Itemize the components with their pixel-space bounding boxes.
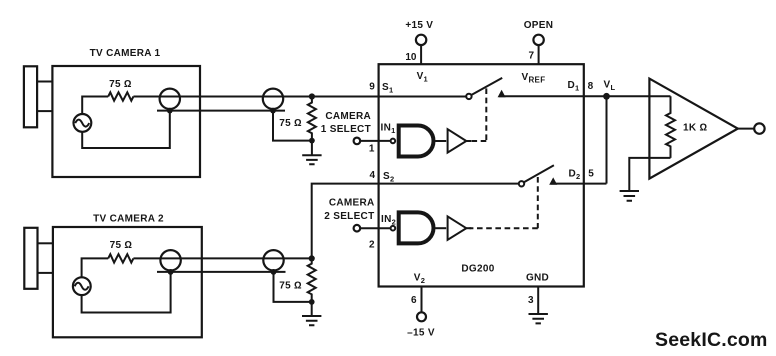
svg-text:DG200: DG200 — [461, 263, 494, 274]
dashed control line SW2 — [537, 177, 539, 228]
camera 1 lens mount bar upper — [37, 81, 52, 83]
terminal output — [754, 123, 764, 133]
svg-text:7: 7 — [528, 51, 534, 62]
terminal IN2 — [354, 225, 361, 232]
pin 10 V1 terminal +15V — [416, 35, 426, 45]
resistor R3 75ohm camera 2 — [108, 254, 133, 262]
svg-text:–15 V: –15 V — [407, 327, 435, 338]
wire R5 bottom to ground — [629, 158, 670, 191]
wire signal rail camera 2 to node B — [133, 257, 311, 259]
junction J1 shield — [167, 108, 173, 114]
svg-text:4: 4 — [369, 170, 375, 181]
IC U1 DG200 box — [379, 64, 584, 286]
resistor R5 1K — [666, 96, 675, 158]
connector J4 — [263, 250, 283, 270]
buffer U1B — [448, 216, 467, 239]
svg-text:CAMERA: CAMERA — [329, 197, 375, 208]
wire op amp output — [738, 128, 754, 130]
wire J2 shield to ground node — [273, 111, 312, 141]
gate G1 input bubble — [391, 139, 396, 144]
svg-text:75 Ω: 75 Ω — [279, 118, 302, 129]
wire source B1 to rail — [82, 97, 108, 114]
resistor R2 75ohm termination camera 1 — [308, 97, 316, 141]
svg-text:75 Ω: 75 Ω — [110, 240, 133, 251]
pin 3 GND terminal — [537, 287, 539, 315]
ground camera 1 termination — [302, 141, 321, 165]
camera 2 enclosure box — [53, 227, 202, 337]
junction J2 shield — [270, 108, 276, 114]
wire camera 1 return loop — [82, 111, 170, 148]
svg-text:3: 3 — [528, 295, 534, 306]
wire J4 shield to ground node — [274, 272, 312, 302]
camera 1 enclosure box — [52, 66, 200, 177]
svg-text:SeekIC.com: SeekIC.com — [655, 329, 768, 351]
wire buffer U1B output — [466, 227, 471, 229]
junction R4 bottom — [309, 299, 315, 305]
node VL junction — [603, 93, 610, 100]
svg-text:TV CAMERA 2: TV CAMERA 2 — [93, 214, 164, 225]
op amp A1 — [649, 79, 737, 179]
wire IN1 to gate 1 — [360, 140, 390, 142]
pin 6 V2 terminal -15V — [421, 287, 423, 313]
camera 1 lens mount bar lower — [37, 110, 52, 112]
wire D1 to VL node — [499, 95, 607, 97]
switch SW1 arrow — [498, 90, 506, 97]
ground camera 2 termination — [302, 302, 321, 325]
connector J3 camera 2 output — [160, 250, 180, 270]
svg-text:1: 1 — [369, 144, 375, 155]
switch SW2 pole — [519, 181, 524, 186]
wire shield bar camera 2 — [157, 271, 286, 273]
camera 2 lens mount bar lower — [38, 272, 53, 274]
camera 2 lens mount bar upper — [38, 242, 53, 244]
wire VL to op amp — [607, 95, 671, 97]
wire node A to S1 — [312, 96, 466, 98]
signal source B1 camera 1 — [74, 114, 92, 132]
connector J1 camera 1 output — [160, 89, 180, 109]
svg-text:1 SELECT: 1 SELECT — [321, 124, 371, 135]
camera 1 lens barrel — [24, 66, 37, 127]
connector J2 — [263, 89, 283, 109]
terminal IN1 — [354, 138, 361, 145]
wire D2 to VL riser — [551, 183, 607, 185]
wire shield bar camera 1 — [157, 110, 285, 112]
wire source B2 to rail — [82, 258, 109, 277]
switch SW1 lever — [471, 78, 502, 95]
svg-text:OPEN: OPEN — [524, 20, 554, 31]
wire signal rail camera 1 to node A — [133, 96, 312, 98]
junction R2 bottom — [309, 138, 315, 144]
wire VL riser to D2 — [606, 96, 608, 184]
svg-text:+15 V: +15 V — [405, 20, 433, 31]
buffer U1A — [448, 129, 467, 152]
svg-text:2: 2 — [369, 240, 375, 251]
svg-text:8: 8 — [588, 81, 594, 92]
ground op amp — [620, 191, 639, 201]
node A junction top — [309, 93, 315, 99]
node B junction top — [309, 255, 315, 261]
ground pin 3 — [529, 314, 548, 323]
resistor R1 75ohm camera 1 — [108, 92, 133, 100]
svg-text:10: 10 — [405, 52, 417, 63]
wire camera 2 return loop — [82, 272, 171, 313]
svg-text:6: 6 — [411, 295, 417, 306]
wire node B riser to S2 — [312, 184, 519, 259]
svg-text:CAMERA: CAMERA — [325, 111, 371, 122]
svg-text:75 Ω: 75 Ω — [109, 79, 132, 90]
wire gate G1 to buffer — [435, 140, 446, 142]
wire buffer U1A output — [466, 140, 471, 142]
gate G1 — [399, 126, 434, 157]
signal source B2 camera 2 — [73, 277, 91, 295]
svg-text:GND: GND — [526, 273, 549, 284]
svg-text:9: 9 — [369, 82, 375, 93]
gate G2 input bubble — [391, 226, 396, 231]
svg-text:75 Ω: 75 Ω — [279, 281, 302, 292]
camera 2 lens barrel — [24, 228, 37, 289]
svg-text:TV CAMERA 1: TV CAMERA 1 — [90, 48, 161, 59]
switch SW2 lever — [524, 165, 554, 182]
switch SW2 arrow — [549, 177, 557, 184]
wire IN2 to gate 2 — [360, 227, 390, 229]
wire gate G2 to buffer — [435, 227, 446, 229]
svg-text:1K Ω: 1K Ω — [683, 123, 707, 134]
svg-text:2 SELECT: 2 SELECT — [324, 211, 374, 222]
svg-text:5: 5 — [588, 168, 594, 179]
pin 7 VREF terminal OPEN — [533, 35, 543, 45]
junction J3 shield — [168, 269, 174, 275]
gate G2 — [399, 212, 434, 243]
resistor R4 75ohm termination camera 2 — [308, 258, 316, 302]
switch SW1 pole — [466, 94, 471, 99]
junction J4 shield — [271, 269, 277, 275]
dashed control line SW1 — [485, 88, 487, 141]
